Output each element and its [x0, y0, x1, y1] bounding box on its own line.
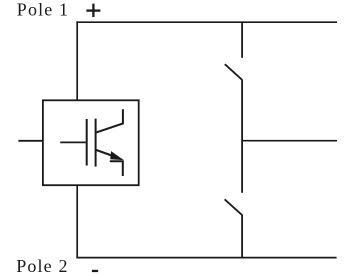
- IGBT Q1 emitter lead: [110, 161, 123, 176]
- IGBT Q1 channel bar: [95, 119, 97, 167]
- switch S1 upper contact wire: [241, 22, 243, 58]
- wire left vertical from top bus to valve box: [76, 21, 78, 100]
- switch S2 lower contact wire: [241, 215, 243, 259]
- IGBT Q1 gate lead internal: [60, 141, 86, 143]
- node + (positive terminal): [86, 4, 100, 17]
- switch S2 upper contact wire: [241, 141, 243, 193]
- wire middle bus: [242, 140, 337, 142]
- switch S1 blade: [225, 64, 242, 79]
- IGBT Q1 emitter arrow: [96, 150, 120, 159]
- IGBT Q1 collector lead: [96, 109, 123, 132]
- svg-text:Pole 2: Pole 2: [16, 256, 68, 276]
- wire bottom bus: [76, 257, 336, 259]
- svg-text:Pole 1: Pole 1: [17, 0, 69, 20]
- wire top bus: [76, 21, 337, 23]
- node - (negative terminal): [92, 270, 98, 272]
- switch S1 lower contact wire: [241, 79, 243, 141]
- wire left vertical from valve box to bottom bus: [76, 185, 78, 258]
- switch S2 blade: [225, 199, 242, 215]
- wire gate lead external: [18, 140, 43, 142]
- IGBT valve enclosure box: [43, 100, 139, 185]
- IGBT Q1 gate bar: [86, 119, 88, 166]
